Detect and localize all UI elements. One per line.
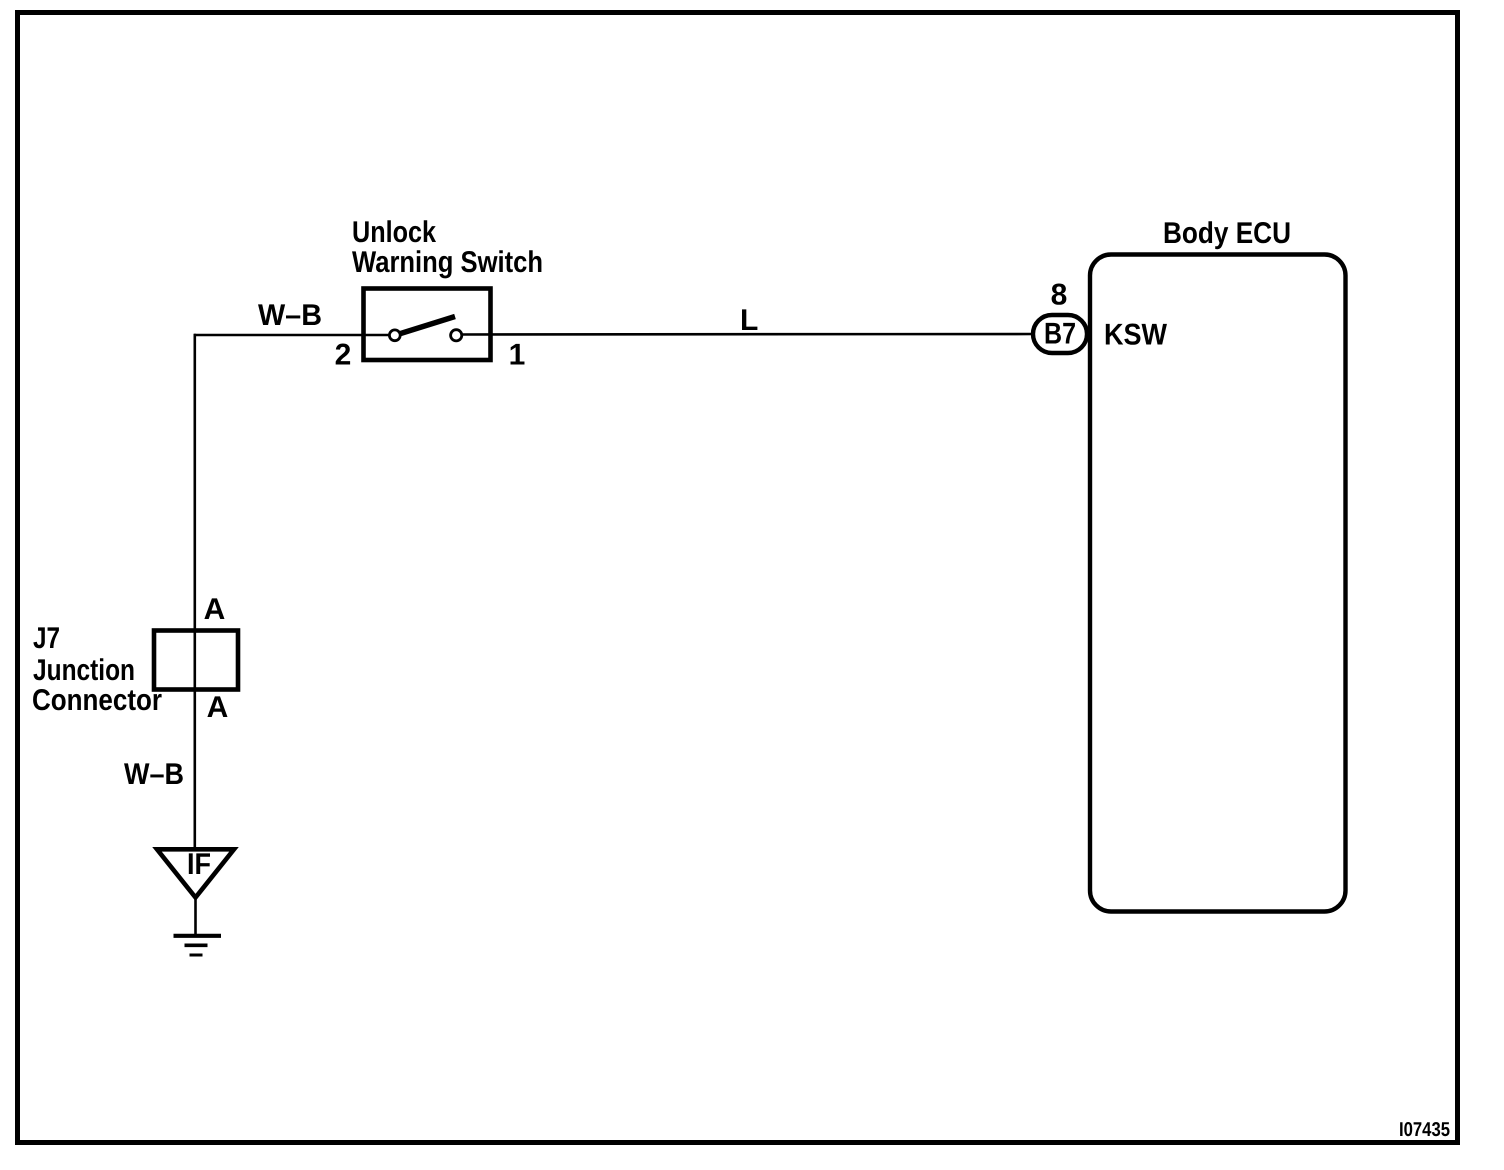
connector IF: [157, 848, 234, 898]
svg-text:J7: J7: [33, 622, 60, 655]
svg-text:W–B: W–B: [124, 758, 184, 791]
svg-text:Connector: Connector: [32, 684, 162, 717]
svg-text:B7: B7: [1044, 318, 1076, 351]
pin A (bottom): [207, 691, 229, 724]
wire vertical W-B segment: [194, 334, 197, 848]
label I07435: [1399, 1119, 1450, 1141]
Body ECU: [1090, 255, 1346, 912]
svg-text:Junction: Junction: [33, 654, 135, 687]
pin A (top): [204, 593, 226, 626]
pin 2: [335, 339, 352, 372]
svg-text:Body ECU: Body ECU: [1163, 217, 1291, 250]
unlock warning switch box: [364, 289, 491, 361]
connector B7: [1033, 315, 1087, 353]
switch lever: [399, 317, 455, 335]
svg-text:Warning Switch: Warning Switch: [352, 246, 543, 279]
junction connector J7: [154, 631, 238, 690]
label Body ECU: [1163, 217, 1291, 250]
label Unlock Warning Switch: [352, 216, 543, 279]
label J7 Junction Connector: [32, 622, 162, 717]
svg-text:IF: IF: [187, 848, 211, 881]
switch pole contact (pin 2 side): [389, 330, 400, 341]
svg-text:L: L: [740, 304, 758, 337]
wire L segment: [456, 333, 1035, 336]
wire to ground: [194, 897, 197, 936]
pin 1: [509, 339, 526, 372]
switch throw contact (pin 1 side): [451, 330, 462, 341]
svg-text:W–B: W–B: [258, 299, 322, 332]
svg-text:A: A: [204, 593, 226, 626]
label W-B (bottom): [124, 758, 184, 791]
svg-text:KSW: KSW: [1104, 319, 1168, 352]
node KSW: [1104, 319, 1168, 352]
svg-text:1: 1: [509, 339, 526, 372]
label W-B (top): [258, 299, 322, 332]
wire W-B horizontal segment: [194, 334, 396, 337]
label L: [740, 304, 758, 337]
ground: [174, 936, 222, 955]
svg-text:8: 8: [1051, 279, 1068, 312]
pin 8: [1051, 279, 1068, 312]
svg-text:Unlock: Unlock: [352, 216, 436, 249]
svg-text:2: 2: [335, 339, 352, 372]
svg-text:A: A: [207, 691, 229, 724]
svg-text:I07435: I07435: [1399, 1119, 1450, 1141]
